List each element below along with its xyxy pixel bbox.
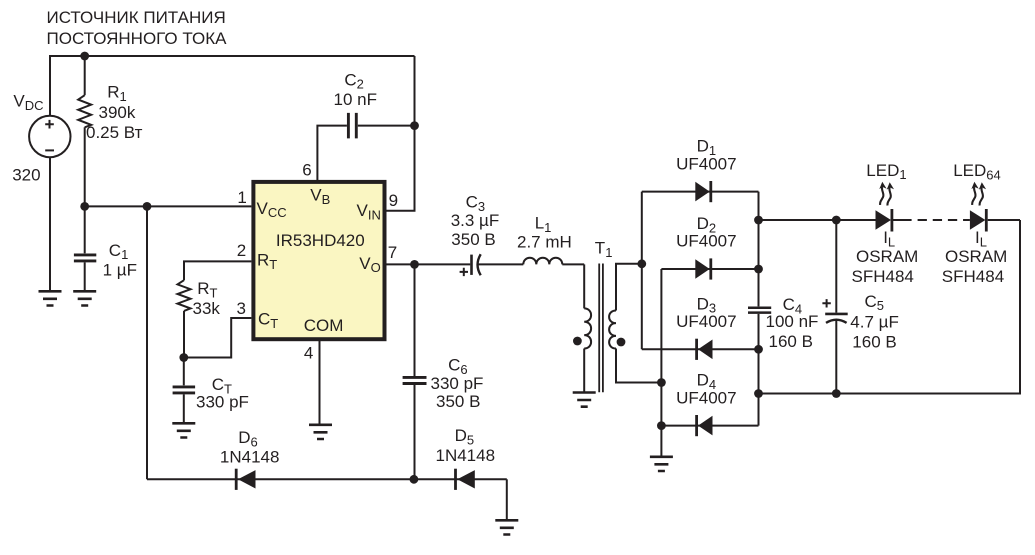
wire VCC to D6 rail (146, 206, 148, 479)
label VDC (13, 91, 43, 112)
wire C2 right (358, 121, 419, 130)
diode D6 (236, 469, 255, 490)
svg-text:2: 2 (237, 241, 246, 260)
wire dashed LED string (893, 219, 970, 221)
LED1 (876, 209, 892, 232)
resistor R1 (78, 56, 91, 206)
diode D1 (642, 181, 759, 202)
source VDC (29, 56, 70, 291)
label LED64 (942, 161, 1008, 286)
svg-text:160 В: 160 В (769, 332, 813, 351)
wire pin4 COM (319, 340, 321, 425)
title text (47, 8, 228, 48)
LED64 arrows (971, 182, 986, 206)
label CT (196, 375, 249, 411)
diode D5 (456, 469, 475, 490)
ground D5 (495, 520, 518, 534)
wire pin6 VB (317, 126, 347, 181)
pin number 4 (304, 343, 313, 362)
ground C1 (73, 291, 96, 305)
resistor RT (178, 280, 191, 357)
LED64 (970, 209, 1020, 232)
svg-text:7: 7 (388, 243, 397, 262)
svg-text:6: 6 (302, 160, 311, 179)
wire top rail (50, 56, 415, 57)
pin number 2 (237, 241, 246, 260)
label T1 (595, 239, 613, 260)
label D3 (676, 294, 736, 331)
label L1 (517, 214, 572, 252)
svg-text:390k: 390k (99, 103, 136, 122)
svg-text:10 nF: 10 nF (334, 90, 377, 109)
svg-text:1 µF: 1 µF (103, 260, 137, 279)
svg-text:SFH484: SFH484 (942, 267, 1004, 286)
wire bridge output rail (758, 192, 760, 426)
label 320 (12, 165, 40, 184)
capacitor C2 (348, 113, 356, 138)
node RT CT (179, 353, 188, 362)
wire D6-D5 row (147, 478, 507, 480)
pin number 1 (237, 188, 246, 207)
capacitor C3 (472, 254, 524, 275)
wire D5 to ground (506, 479, 508, 520)
wire bridge rail2 (657, 269, 666, 457)
capacitor C4 (748, 308, 771, 313)
svg-text:4: 4 (304, 343, 313, 362)
svg-text:350 В: 350 В (436, 392, 480, 411)
svg-text:IR53HD420: IR53HD420 (276, 231, 365, 250)
pin number 7 (388, 243, 397, 262)
label RT (193, 279, 221, 318)
svg-text:COM: COM (304, 316, 344, 335)
capacitor C6 (403, 264, 427, 479)
diode D2 (661, 258, 762, 279)
svg-text:1: 1 (237, 188, 246, 207)
svg-text:0.25 Вт: 0.25 Вт (86, 123, 143, 142)
svg-text:UF4007: UF4007 (676, 154, 736, 173)
label R1 (86, 83, 143, 142)
svg-text:UF4007: UF4007 (676, 312, 736, 331)
svg-text:33k: 33k (193, 299, 221, 318)
svg-text:3: 3 (237, 299, 246, 318)
svg-text:UF4007: UF4007 (676, 232, 736, 251)
transformer T1 secondary (609, 264, 661, 383)
svg-text:320: 320 (12, 165, 40, 184)
label D5 (436, 426, 496, 465)
pin number 6 (302, 160, 311, 179)
wire output plus (754, 216, 875, 225)
label C2 (334, 70, 377, 109)
svg-text:3.3 µF: 3.3 µF (451, 211, 500, 230)
wire VIN rail (387, 56, 415, 211)
label C3 (451, 192, 500, 276)
svg-text:1N4148: 1N4148 (220, 447, 280, 466)
label D6 (220, 428, 280, 466)
svg-text:330 pF: 330 pF (431, 374, 484, 393)
label C6 (431, 355, 484, 411)
transformer T1 core (599, 264, 603, 393)
label LED1 (852, 161, 919, 286)
label C1 (103, 241, 137, 280)
capacitor CT (173, 358, 196, 424)
wire pin2 to RT (184, 261, 251, 280)
node C6 bottom (410, 475, 419, 484)
svg-text:9: 9 (389, 191, 398, 210)
svg-text:OSRAM: OSRAM (945, 247, 1007, 266)
label D1 (676, 137, 736, 174)
pin number 3 (237, 299, 246, 318)
diode D4 (661, 415, 758, 436)
node secondary bottom on rail2 (657, 378, 666, 387)
capacitor C1 (74, 206, 96, 291)
wire pin3 (184, 318, 252, 358)
svg-text:330 pF: 330 pF (196, 393, 249, 412)
wire bridge rail1 (641, 192, 643, 350)
label C4 (766, 295, 819, 351)
svg-text:1N4148: 1N4148 (436, 446, 496, 465)
node top rail junction (80, 52, 89, 61)
capacitor C5 (825, 220, 848, 394)
node secondary top on rail1 (637, 259, 646, 268)
IC pin labels (257, 185, 381, 335)
ground T1 (573, 393, 596, 407)
label D4 (676, 371, 736, 408)
transformer T1 primary (573, 264, 591, 392)
svg-text:ПОСТОЯННОГО ТОКА: ПОСТОЯННОГО ТОКА (47, 29, 228, 48)
svg-text:UF4007: UF4007 (676, 388, 736, 407)
ground COM (309, 425, 332, 439)
ground bridge (650, 457, 673, 471)
diode D3 (642, 339, 763, 360)
ground CT (172, 423, 195, 437)
LED1 arrows (879, 182, 894, 206)
inductor L1 (523, 258, 584, 265)
svg-text:4.7 µF: 4.7 µF (850, 313, 899, 332)
svg-text:OSRAM: OSRAM (856, 247, 918, 266)
svg-text:ИСТОЧНИК ПИТАНИЯ: ИСТОЧНИК ПИТАНИЯ (47, 8, 226, 27)
svg-text:2.7 mH: 2.7 mH (517, 232, 572, 251)
node VCC (80, 202, 251, 211)
label C5 (822, 292, 898, 352)
ground VDC (39, 291, 62, 305)
pin number 9 (389, 191, 398, 210)
label D2 (676, 214, 736, 251)
op-amp U1 IC IR53HD420 box (253, 182, 384, 339)
wire right return (754, 220, 1020, 398)
svg-text:160 В: 160 В (852, 332, 896, 351)
svg-text:SFH484: SFH484 (852, 267, 914, 286)
wire pin7 VO (387, 260, 471, 269)
svg-text:100 nF: 100 nF (766, 312, 819, 331)
svg-text:350 В: 350 В (451, 230, 495, 249)
